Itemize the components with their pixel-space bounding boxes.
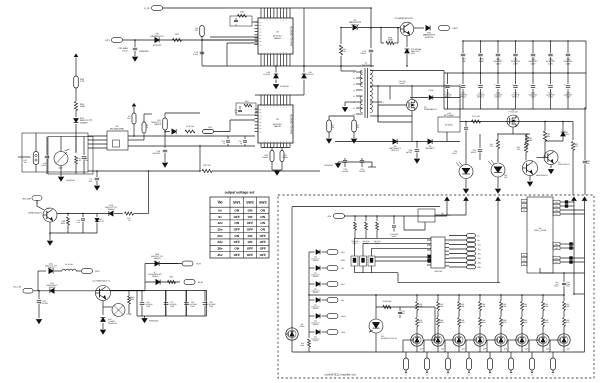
svg-text:0.1uF: 0.1uF bbox=[122, 49, 128, 52]
svg-text:125V: 125V bbox=[496, 62, 502, 65]
svg-text:OFF: OFF bbox=[260, 240, 266, 244]
svg-text:ON: ON bbox=[234, 234, 239, 238]
svg-text:UNI: UNI bbox=[411, 52, 415, 55]
svg-text:xxx: xxx bbox=[259, 25, 262, 27]
svg-text:1uF: 1uF bbox=[462, 60, 466, 63]
svg-text:OFF: OFF bbox=[247, 221, 253, 225]
svg-text:MC33362 TB4AN1: MC33362 TB4AN1 bbox=[290, 114, 293, 135]
svg-text:1: 1 bbox=[267, 19, 268, 22]
svg-text:1: 1 bbox=[277, 140, 278, 143]
svg-text:TB4AN1: TB4AN1 bbox=[273, 37, 281, 40]
svg-text:xxx: xxx bbox=[259, 131, 262, 133]
svg-text:1: 1 bbox=[277, 51, 278, 54]
svg-text:1: 1 bbox=[267, 140, 268, 143]
svg-text:100nF: 100nF bbox=[471, 151, 477, 154]
svg-text:5v: 5v bbox=[218, 208, 222, 212]
svg-text:KLM: KLM bbox=[198, 281, 203, 284]
svg-text:xxx: xxx bbox=[259, 32, 262, 34]
svg-text:UPVo.1: UPVo.1 bbox=[495, 96, 503, 99]
svg-text:FWMGND: FWMGND bbox=[108, 322, 117, 325]
svg-text:U6: U6 bbox=[353, 77, 355, 80]
svg-text:MCR2AGACMT1U: MCR2AGACMT1U bbox=[381, 337, 397, 340]
svg-text:100R: 100R bbox=[387, 39, 393, 42]
svg-text:1: 1 bbox=[280, 19, 281, 22]
svg-text:1: 1 bbox=[270, 106, 271, 109]
svg-text:ON: ON bbox=[248, 240, 253, 244]
svg-text:OFF: OFF bbox=[247, 247, 253, 251]
svg-text:R12B 04R: R12B 04R bbox=[383, 300, 392, 303]
svg-text:xxx: xxx bbox=[259, 128, 262, 130]
svg-text:VCR: VCR bbox=[196, 263, 201, 266]
svg-text:4.7K: 4.7K bbox=[80, 80, 85, 83]
svg-text:1: 1 bbox=[264, 140, 265, 143]
svg-text:12v: 12v bbox=[478, 244, 481, 247]
svg-text:1N5819: 1N5819 bbox=[47, 267, 55, 270]
svg-text:1uF/2R: 1uF/2R bbox=[399, 82, 406, 85]
svg-text:xxx: xxx bbox=[259, 109, 262, 111]
svg-text:MC34063ABD: MC34063ABD bbox=[110, 127, 125, 130]
svg-text:Q1 MMBT5401LT1: Q1 MMBT5401LT1 bbox=[395, 17, 415, 20]
svg-text:NTMS: NTMS bbox=[299, 325, 305, 328]
svg-text:h: h bbox=[552, 374, 553, 377]
svg-text:GND2: GND2 bbox=[439, 321, 444, 324]
svg-text:Q26: Q26 bbox=[546, 348, 549, 351]
svg-text:1: 1 bbox=[290, 106, 291, 109]
svg-text:102K: 102K bbox=[528, 139, 533, 142]
svg-text:1: 1 bbox=[270, 140, 271, 143]
svg-text:c: c bbox=[448, 374, 449, 377]
svg-text:MMBT3904LT1: MMBT3904LT1 bbox=[536, 174, 548, 177]
svg-text:Q24: Q24 bbox=[504, 348, 507, 351]
svg-text:GND2: GND2 bbox=[392, 235, 397, 238]
svg-text:1M: 1M bbox=[343, 50, 346, 53]
svg-text:1: 1 bbox=[283, 106, 284, 109]
svg-text:1: 1 bbox=[264, 106, 265, 109]
svg-text:1: 1 bbox=[277, 19, 278, 22]
svg-text:125V: 125V bbox=[531, 62, 537, 65]
svg-text:xxx: xxx bbox=[259, 22, 262, 24]
svg-text:GND2: GND2 bbox=[460, 321, 465, 324]
svg-text:SOD123: SOD123 bbox=[263, 73, 270, 76]
svg-text:100nF: 100nF bbox=[360, 52, 366, 55]
svg-text:1: 1 bbox=[283, 51, 284, 54]
svg-text:9v: 9v bbox=[478, 239, 480, 242]
svg-text:1: 1 bbox=[280, 51, 281, 54]
svg-text:1: 1 bbox=[273, 19, 274, 22]
svg-text:1: 1 bbox=[270, 19, 271, 22]
svg-text:OFF: OFF bbox=[260, 253, 266, 257]
svg-text:125V: 125V bbox=[566, 96, 571, 99]
svg-text:ON: ON bbox=[234, 247, 239, 251]
svg-text:PQ2020: PQ2020 bbox=[362, 64, 371, 67]
svg-text:U4: U4 bbox=[353, 89, 355, 92]
svg-text:ON: ON bbox=[248, 234, 253, 238]
svg-text:2N60S5BDLLG: 2N60S5BDLLG bbox=[424, 108, 438, 111]
svg-text:SOD123: SOD123 bbox=[351, 23, 360, 26]
svg-text:Q27: Q27 bbox=[567, 348, 570, 351]
svg-text:GND2: GND2 bbox=[565, 321, 570, 324]
svg-text:125V: 125V bbox=[566, 62, 572, 65]
svg-text:ON: ON bbox=[260, 208, 265, 212]
svg-text:1W: 1W bbox=[24, 161, 27, 164]
svg-text:BZX84: BZX84 bbox=[563, 133, 569, 136]
svg-text:1R/5W: 1R/5W bbox=[282, 156, 288, 159]
svg-text:OFF: OFF bbox=[247, 228, 253, 232]
svg-text:GND2: GND2 bbox=[481, 321, 486, 324]
svg-text:470: 470 bbox=[574, 145, 577, 148]
svg-text:MC33341: MC33341 bbox=[445, 124, 453, 127]
svg-text:OFF: OFF bbox=[260, 234, 266, 238]
svg-text:125V: 125V bbox=[513, 62, 519, 65]
svg-text:MC33341P: MC33341P bbox=[444, 114, 455, 117]
svg-text:U0: U0 bbox=[353, 113, 355, 116]
svg-text:15v: 15v bbox=[478, 248, 481, 251]
svg-text:1: 1 bbox=[283, 140, 284, 143]
svg-text:1: 1 bbox=[261, 51, 262, 54]
svg-text:GND2: GND2 bbox=[502, 321, 507, 324]
svg-text:ON: ON bbox=[234, 221, 239, 225]
svg-text:LM10: LM10 bbox=[58, 167, 63, 170]
svg-text:R22 1K: R22 1K bbox=[203, 164, 211, 167]
svg-text:R64: R64 bbox=[170, 276, 173, 279]
svg-text:100K: 100K bbox=[546, 135, 551, 138]
svg-text:1: 1 bbox=[290, 19, 291, 22]
svg-text:24v: 24v bbox=[478, 257, 481, 260]
svg-text:9v: 9v bbox=[218, 215, 222, 219]
svg-text:10uF/2R: 10uF/2R bbox=[152, 152, 160, 155]
svg-text:xxx: xxx bbox=[259, 28, 262, 30]
svg-text:xxx: xxx bbox=[259, 119, 262, 121]
svg-text:Q23: Q23 bbox=[483, 348, 486, 351]
svg-text:1: 1 bbox=[267, 51, 268, 54]
svg-text:SOD123: SOD123 bbox=[153, 44, 162, 47]
svg-text:xxx: xxx bbox=[259, 112, 262, 114]
svg-text:10nF: 10nF bbox=[479, 60, 485, 63]
svg-text:45v: 45v bbox=[478, 266, 481, 269]
svg-text:1: 1 bbox=[286, 140, 287, 143]
svg-text:1n: 1n bbox=[235, 111, 237, 114]
svg-text:1: 1 bbox=[280, 140, 281, 143]
svg-text:1n: 1n bbox=[240, 142, 242, 145]
svg-text:U_IN: U_IN bbox=[144, 7, 150, 10]
svg-text:ON: ON bbox=[260, 221, 265, 225]
svg-text:1: 1 bbox=[277, 106, 278, 109]
svg-text:1: 1 bbox=[273, 140, 274, 143]
svg-text:1: 1 bbox=[264, 19, 265, 22]
svg-text:2Bv: 2Bv bbox=[478, 262, 481, 265]
svg-text:1: 1 bbox=[286, 106, 287, 109]
svg-text:Vo: Vo bbox=[217, 200, 223, 205]
svg-text:1N5819: 1N5819 bbox=[154, 123, 162, 126]
svg-text:100K: 100K bbox=[130, 298, 135, 301]
svg-text:Q21: Q21 bbox=[441, 348, 444, 351]
svg-text:6: 6 bbox=[383, 101, 384, 104]
svg-text:MA2UYC1: MA2UYC1 bbox=[96, 220, 105, 223]
svg-text:1: 1 bbox=[273, 106, 274, 109]
svg-text:1: 1 bbox=[264, 51, 265, 54]
svg-text:U3: U3 bbox=[353, 95, 355, 98]
svg-text:1: 1 bbox=[286, 51, 287, 54]
svg-text:GND2: GND2 bbox=[418, 321, 423, 324]
svg-text:1: 1 bbox=[290, 51, 291, 54]
svg-text:AVO: AVO bbox=[95, 270, 100, 273]
svg-text:+40V: +40V bbox=[452, 27, 458, 30]
svg-text:-24N: -24N bbox=[341, 331, 346, 334]
svg-text:74HC2B: 74HC2B bbox=[434, 270, 442, 273]
svg-text:FWMGND: FWMGND bbox=[280, 85, 289, 88]
svg-text:AC2_IN: AC2_IN bbox=[13, 286, 21, 289]
svg-text:100K: 100K bbox=[61, 222, 66, 225]
svg-text:Q22: Q22 bbox=[462, 348, 465, 351]
svg-text:U1: U1 bbox=[353, 107, 355, 110]
svg-text:MBRS160T3: MBRS160T3 bbox=[151, 35, 165, 38]
svg-text:1n: 1n bbox=[223, 142, 225, 145]
svg-text:1N5819: 1N5819 bbox=[152, 275, 159, 278]
svg-text:28v: 28v bbox=[217, 247, 222, 251]
svg-text:Q11 MMBT5401LT1: Q11 MMBT5401LT1 bbox=[92, 280, 111, 283]
svg-text:125R: 125R bbox=[190, 305, 195, 308]
svg-text:b: b bbox=[426, 374, 427, 377]
svg-text:1N4003: 1N4003 bbox=[49, 286, 56, 289]
svg-text:+24N: +24N bbox=[341, 315, 346, 318]
svg-text:125R: 125R bbox=[209, 305, 214, 308]
svg-text:ON: ON bbox=[260, 228, 265, 232]
svg-text:GND2: GND2 bbox=[544, 321, 549, 324]
svg-text:FWMGND: FWMGND bbox=[139, 50, 149, 53]
svg-text:P-channel: P-channel bbox=[508, 111, 518, 114]
svg-text:1N5819: 1N5819 bbox=[80, 121, 88, 124]
svg-text:1N5819: 1N5819 bbox=[153, 257, 161, 260]
svg-text:4.7uF/2R: 4.7uF/2R bbox=[40, 302, 48, 305]
svg-text:125V: 125V bbox=[531, 96, 536, 99]
svg-text:15v: 15v bbox=[217, 228, 222, 232]
svg-text:xxx: xxx bbox=[259, 44, 262, 46]
svg-text:1: 1 bbox=[273, 51, 274, 54]
svg-text:UPVo.1: UPVo.1 bbox=[460, 96, 468, 99]
svg-text:ON: ON bbox=[260, 215, 265, 219]
svg-text:d: d bbox=[468, 374, 469, 377]
svg-text:xxx: xxx bbox=[259, 41, 262, 43]
svg-text:FWMGND: FWMGND bbox=[324, 164, 333, 167]
svg-text:U2: U2 bbox=[353, 101, 355, 104]
svg-text:OFF: OFF bbox=[234, 228, 240, 232]
svg-text:24v: 24v bbox=[217, 240, 222, 244]
svg-text:UPVo.1: UPVo.1 bbox=[477, 96, 485, 99]
svg-text:GND2: GND2 bbox=[353, 242, 358, 245]
svg-text:ON: ON bbox=[234, 208, 239, 212]
svg-text:0.1uF: 0.1uF bbox=[193, 53, 199, 56]
svg-text:AC1: AC1 bbox=[105, 39, 110, 42]
svg-text:U5: U5 bbox=[353, 83, 355, 86]
svg-text:GND2: GND2 bbox=[523, 321, 528, 324]
svg-text:12v: 12v bbox=[217, 221, 222, 225]
svg-text:MMBT3904LT1: MMBT3904LT1 bbox=[28, 212, 43, 215]
svg-text:SW3: SW3 bbox=[259, 201, 267, 205]
svg-text:xxx: xxx bbox=[259, 125, 262, 127]
svg-text:5v: 5v bbox=[478, 235, 480, 238]
svg-text:OFF: OFF bbox=[260, 247, 266, 251]
svg-text:1N5819: 1N5819 bbox=[107, 208, 115, 211]
svg-text:1: 1 bbox=[280, 106, 281, 109]
svg-text:1R/5W: 1R/5W bbox=[262, 156, 268, 159]
svg-text:FWMGND: FWMGND bbox=[149, 320, 159, 323]
svg-text:L2 4.7uH: L2 4.7uH bbox=[186, 125, 195, 128]
svg-text:1uF/2R: 1uF/2R bbox=[359, 170, 366, 173]
svg-text:SW2: SW2 bbox=[246, 201, 254, 205]
svg-text:125V: 125V bbox=[548, 62, 554, 65]
svg-text:xxx: xxx bbox=[259, 115, 262, 117]
svg-text:100K: 100K bbox=[80, 105, 86, 108]
svg-text:1uF/2R: 1uF/2R bbox=[405, 151, 412, 154]
svg-text:20v: 20v bbox=[478, 253, 481, 256]
svg-text:OFF: OFF bbox=[234, 253, 240, 257]
svg-text:1: 1 bbox=[286, 19, 287, 22]
svg-text:OFF: OFF bbox=[247, 253, 253, 257]
svg-text:OFF: OFF bbox=[234, 240, 240, 244]
svg-text:1: 1 bbox=[261, 140, 262, 143]
svg-text:xxx: xxx bbox=[259, 38, 262, 40]
svg-text:1uF/2R: 1uF/2R bbox=[342, 170, 349, 173]
svg-text:UPVo.1: UPVo.1 bbox=[444, 96, 452, 99]
svg-text:125R: 125R bbox=[146, 305, 151, 308]
svg-text:xxxAA6TE11 Amplifier unit: xxxAA6TE11 Amplifier unit bbox=[324, 374, 356, 377]
svg-text:L3 4.7uH: L3 4.7uH bbox=[65, 263, 74, 266]
svg-text:e: e bbox=[489, 374, 490, 377]
svg-text:UPVo.1: UPVo.1 bbox=[512, 96, 520, 99]
svg-text:Q20: Q20 bbox=[420, 348, 423, 351]
svg-text:45v: 45v bbox=[217, 253, 222, 257]
svg-text:OFF: OFF bbox=[234, 215, 240, 219]
svg-text:xxx: xxx bbox=[259, 122, 262, 124]
svg-text:ON: ON bbox=[248, 208, 253, 212]
svg-text:U7: U7 bbox=[353, 71, 355, 74]
svg-text:USB-(_)UHMI: USB-(_)UHMI bbox=[534, 229, 547, 232]
svg-text:MC33362 TB4AN1: MC33362 TB4AN1 bbox=[290, 26, 293, 47]
svg-text:MBT54T3: MBT54T3 bbox=[426, 147, 436, 150]
svg-text:1: 1 bbox=[270, 51, 271, 54]
svg-text:1: 1 bbox=[267, 106, 268, 109]
svg-text:FWMGND: FWMGND bbox=[66, 179, 75, 182]
svg-text:INT_INH: INT_INH bbox=[22, 198, 31, 201]
svg-text:20v: 20v bbox=[217, 234, 222, 238]
svg-text:125V: 125V bbox=[548, 96, 553, 99]
svg-text:1: 1 bbox=[283, 19, 284, 22]
svg-text:SW1: SW1 bbox=[233, 201, 241, 205]
svg-text:SOD123: SOD123 bbox=[307, 73, 314, 76]
svg-text:g: g bbox=[531, 374, 532, 377]
svg-text:output voltage set: output voltage set bbox=[225, 191, 256, 195]
svg-text:SOD123: SOD123 bbox=[425, 36, 434, 39]
svg-text:1: 1 bbox=[290, 140, 291, 143]
svg-text:ON: ON bbox=[248, 215, 253, 219]
svg-text:GND2: GND2 bbox=[554, 285, 559, 288]
svg-text:MCP100-3: MCP100-3 bbox=[441, 214, 451, 217]
svg-text:R17 10K: R17 10K bbox=[472, 115, 480, 118]
svg-text:TB4AN1: TB4AN1 bbox=[273, 125, 281, 128]
svg-text:10n: 10n bbox=[85, 159, 88, 162]
svg-text:SOD123: SOD123 bbox=[391, 149, 400, 152]
svg-text:PMBT4403LT1: PMBT4403LT1 bbox=[558, 163, 570, 166]
svg-text:xxx: xxx bbox=[259, 35, 262, 37]
svg-text:C7: C7 bbox=[235, 24, 237, 27]
svg-text:125R: 125R bbox=[170, 305, 175, 308]
svg-text:Q25: Q25 bbox=[525, 348, 528, 351]
